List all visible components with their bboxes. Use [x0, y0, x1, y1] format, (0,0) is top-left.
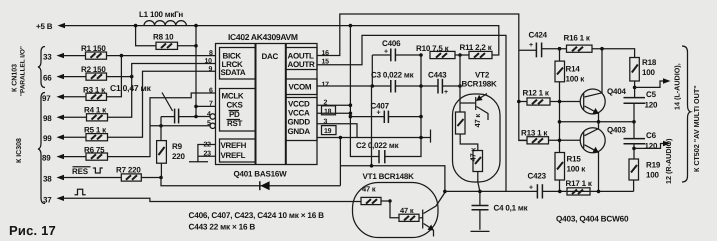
svg-text:C424: C424 [529, 31, 548, 40]
wire output rail R [542, 190, 633, 192]
wire AOUTL branch to C424 [519, 49, 537, 51]
svg-text:R15: R15 [567, 155, 582, 164]
wire AOUTL pin16 top line [317, 14, 527, 141]
svg-text:47 к: 47 к [362, 185, 376, 194]
svg-text:120: 120 [645, 142, 658, 151]
output brace [682, 46, 691, 182]
svg-text:17: 17 [322, 82, 330, 89]
svg-text:C6: C6 [646, 131, 657, 140]
svg-text:AOUTR: AOUTR [288, 60, 315, 69]
svg-text:C406: C406 [382, 39, 401, 48]
svg-text:+: + [444, 89, 448, 96]
svg-text:R16 1 к: R16 1 к [564, 34, 591, 43]
svg-text:CKS: CKS [227, 101, 244, 110]
svg-text:C443: C443 [428, 71, 447, 80]
wire RST row [150, 125, 210, 127]
connector brace CN103 [38, 47, 45, 88]
svg-text:RST: RST [227, 119, 243, 128]
wire C1-RST-R9 vertical [160, 117, 162, 141]
svg-text:97: 97 [42, 94, 51, 103]
wire AOUTR pin15 line [317, 35, 506, 191]
svg-text:+5 В: +5 В [36, 22, 53, 31]
svg-text:7: 7 [209, 101, 213, 108]
svg-text:47 к: 47 к [473, 114, 482, 128]
wire GNDA pin19 row [317, 137, 431, 139]
svg-text:100: 100 [646, 171, 659, 180]
svg-text:100: 100 [642, 68, 655, 77]
svg-text:R12 1 к: R12 1 к [523, 89, 550, 98]
svg-text:VT1 BCR148K: VT1 BCR148K [363, 172, 415, 181]
svg-text:R19: R19 [646, 161, 661, 170]
wire +5V rail [58, 23, 66, 28]
wire VCCD pin2 [317, 104, 350, 106]
pulse symbol positive [75, 189, 86, 195]
svg-text:120: 120 [645, 101, 658, 110]
svg-text:R8 10: R8 10 [153, 33, 174, 42]
IC cell VREFH/VREFL [220, 139, 256, 162]
wire mid bus [420, 55, 422, 138]
wire VCCA pin18 [317, 112, 350, 114]
IC cell VCOM [286, 79, 317, 95]
svg-text:R7 220: R7 220 [116, 166, 141, 175]
svg-text:MCLK: MCLK [222, 92, 244, 101]
svg-text:10: 10 [205, 58, 213, 65]
ground C4 [471, 230, 490, 232]
IC cell DAC [255, 44, 257, 165]
svg-text:GNDD: GNDD [288, 118, 311, 127]
wire pin37 row [62, 198, 361, 201]
svg-text:PD: PD [229, 110, 240, 119]
IC cell BICK/LRCK/SDATA [220, 48, 256, 80]
svg-text:C423: C423 [528, 172, 547, 181]
wire VREFL [198, 155, 216, 157]
svg-text:37: 37 [43, 195, 52, 204]
svg-text:+: + [529, 185, 533, 192]
svg-text:DAC: DAC [262, 52, 279, 61]
svg-text:BCR198K: BCR198K [462, 80, 497, 89]
wire GNDD pin3 [317, 124, 357, 138]
svg-text:C1 0,47 мк: C1 0,47 мк [110, 83, 152, 93]
svg-text:К CN103: К CN103 [12, 64, 19, 92]
wire VREFH to ground [198, 145, 216, 162]
pin 19 boxed [322, 126, 337, 135]
ground GNDA bar [430, 130, 432, 143]
pin 18 boxed [322, 106, 336, 115]
svg-text:Q403, Q404 BCW60: Q403, Q404 BCW60 [556, 215, 629, 224]
svg-text:RES: RES [72, 167, 89, 176]
svg-text:R18: R18 [642, 58, 657, 67]
svg-text:IC402 AK4309AVM: IC402 AK4309AVM [228, 32, 298, 42]
wire R3-to-BICK vertical [107, 56, 122, 97]
svg-text:100 к: 100 к [566, 75, 586, 84]
wire VT1 route [340, 138, 445, 192]
svg-text:38: 38 [43, 174, 52, 183]
svg-text:VCOM: VCOM [289, 83, 312, 92]
IC cell VCCD/VCCA/GNDD/GNDA [286, 98, 317, 141]
svg-text:C406, C407, C423, C424 10 мк ×: C406, C407, C423, C424 10 мк × 16 В [189, 211, 325, 220]
svg-text:Q403: Q403 [607, 126, 627, 135]
svg-text:К IC308: К IC308 [16, 138, 23, 163]
svg-text:R17 1 к: R17 1 к [566, 179, 593, 188]
svg-text:C2 0,022 мк: C2 0,022 мк [356, 141, 400, 150]
svg-text:18: 18 [324, 108, 332, 115]
IC cell AOUTL/AOUTR [286, 48, 317, 70]
svg-text:VREFH: VREFH [221, 141, 247, 150]
svg-text:R11 2,2 к: R11 2,2 к [460, 43, 493, 52]
svg-text:VCCA: VCCA [288, 109, 310, 118]
connector brace IC308 [38, 93, 45, 204]
svg-text:C4 0,1 мк: C4 0,1 мк [494, 204, 529, 213]
svg-text:Рис. 17: Рис. 17 [9, 223, 56, 238]
svg-text:99: 99 [43, 134, 52, 143]
wire BICK row [107, 55, 217, 57]
wire PD row [196, 116, 210, 118]
svg-text:89: 89 [42, 154, 51, 163]
svg-text:+: + [529, 42, 533, 49]
wire RES-diode row [161, 178, 340, 186]
svg-text:47 к: 47 к [469, 148, 478, 162]
wire +5V drop to VCC and C2 [350, 26, 379, 157]
wire emitter rail L [560, 121, 635, 123]
wire bottom rail [445, 190, 538, 192]
svg-text:6: 6 [209, 88, 213, 95]
svg-text:C443 22 мк × 16 В: C443 22 мк × 16 В [189, 223, 256, 232]
svg-text:12 (R-AUDIO): 12 (R-AUDIO) [664, 138, 673, 184]
svg-text:9: 9 [209, 66, 213, 73]
svg-text:L1 100 мкГн: L1 100 мкГн [139, 10, 183, 19]
svg-text:R9: R9 [172, 142, 183, 151]
svg-text:+: + [377, 110, 381, 117]
svg-text:14 (L-AUDIO),: 14 (L-AUDIO), [673, 63, 682, 110]
svg-text:8: 8 [209, 50, 213, 57]
ground VREF [189, 161, 208, 163]
svg-text:220: 220 [172, 152, 185, 161]
svg-text:C5: C5 [646, 90, 657, 99]
wire CKS row [196, 105, 216, 107]
svg-text:98: 98 [43, 114, 52, 123]
wire SDATA riser [108, 71, 217, 137]
svg-text:GNDA: GNDA [288, 127, 311, 136]
svg-text:19: 19 [324, 128, 332, 135]
svg-text:VREFL: VREFL [221, 151, 246, 160]
svg-text:100 к: 100 к [567, 165, 587, 174]
svg-text:Q401 BAS16W: Q401 BAS16W [234, 170, 288, 179]
pulse symbol negative [93, 168, 103, 173]
wire C4 riser [478, 182, 480, 205]
wire VCOM pin17 row (line B) [317, 85, 460, 87]
wire LRCK riser [108, 64, 217, 118]
svg-text:К СТ502 "AV MULTI OUT": К СТ502 "AV MULTI OUT" [692, 85, 701, 172]
wire pin12 out [634, 144, 663, 149]
svg-text:C3 0,022 мк: C3 0,022 мк [371, 71, 415, 80]
svg-text:R14: R14 [566, 65, 581, 74]
svg-text:SDATA: SDATA [221, 68, 246, 77]
svg-text:VCCD: VCCD [288, 100, 310, 109]
svg-text:VT2: VT2 [475, 71, 490, 80]
svg-text:Q404: Q404 [607, 87, 627, 96]
svg-text:33: 33 [43, 53, 52, 62]
wire pin14 out [635, 81, 663, 87]
wire R8 pull-up vertical [195, 26, 197, 117]
wire MCLK riser [108, 93, 217, 157]
IC cell MCLK/CKS/PD/RST [220, 89, 256, 132]
svg-text:"PARALLEL I/O": "PARALLEL I/O" [20, 46, 27, 96]
svg-text:66: 66 [43, 74, 52, 83]
